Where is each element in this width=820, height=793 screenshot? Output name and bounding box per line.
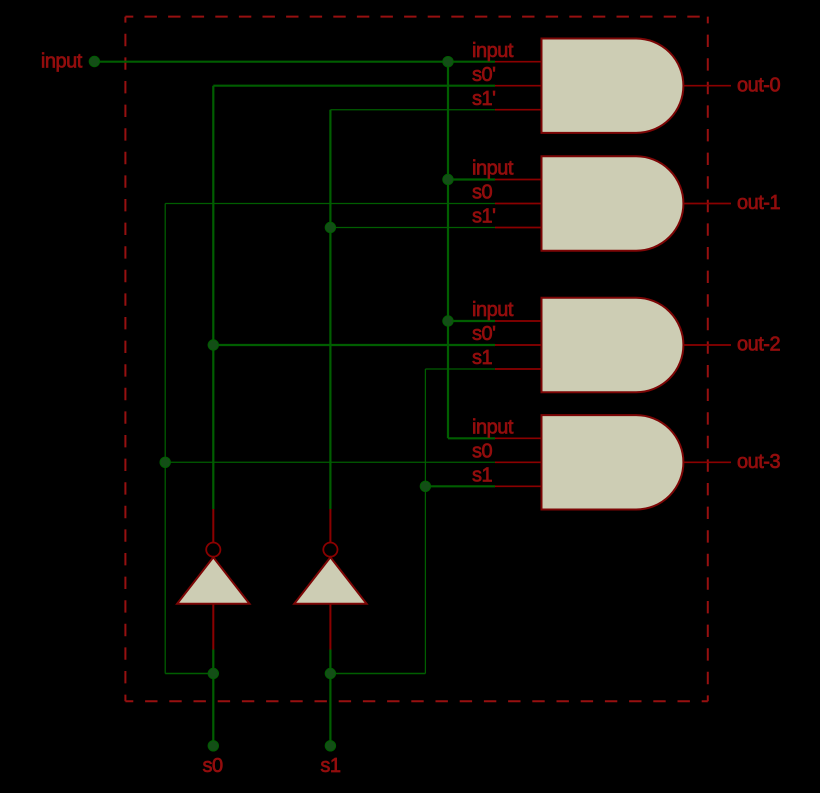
svg-text:input: input <box>472 417 514 439</box>
svg-text:s1': s1' <box>472 206 495 228</box>
svg-text:s1: s1 <box>472 465 493 487</box>
svg-text:s0': s0' <box>472 64 495 86</box>
svg-text:s0: s0 <box>472 182 493 204</box>
svg-text:s0': s0' <box>472 323 495 345</box>
svg-text:input: input <box>41 51 83 73</box>
svg-text:s0: s0 <box>203 755 224 777</box>
svg-text:out-2: out-2 <box>737 334 780 356</box>
svg-text:s1': s1' <box>472 88 495 110</box>
svg-text:out-1: out-1 <box>737 192 780 214</box>
svg-text:out-3: out-3 <box>737 451 780 473</box>
svg-text:input: input <box>472 299 514 321</box>
svg-text:s1: s1 <box>472 347 493 369</box>
svg-text:s1: s1 <box>320 755 341 777</box>
svg-text:s0: s0 <box>472 441 493 463</box>
svg-text:input: input <box>472 158 514 180</box>
svg-text:out-0: out-0 <box>737 74 780 96</box>
svg-text:input: input <box>472 40 514 62</box>
